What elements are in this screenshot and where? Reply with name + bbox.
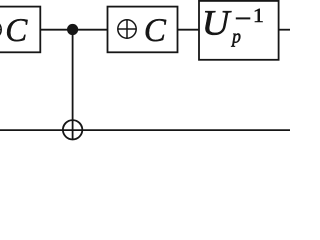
oplus symbol of gate G2 [118,20,136,38]
wire: top qubit, from left gate to middle gate (passes under control dot) [40,29,108,31]
control dot on top qubit [67,24,78,35]
wire: top qubit, middle gate to U gate [177,29,200,31]
superscript digit 1 of gate U_p^-1 [255,9,263,22]
wire: top qubit, U gate to right edge [278,29,290,31]
CNOT target circle on bottom qubit [63,120,82,139]
subscript p of gate U_p^-1 [231,33,240,46]
label C of gate G2 [146,19,167,41]
gate box G2 (XOR-C gate) [108,7,178,53]
gate box G1 (XOR-C gate, clipped by left image edge) [0,7,40,53]
label C of gate G1 [7,19,28,41]
gate box U_p^-1 [199,1,279,60]
oplus symbol of gate G1 (only right sliver visible) [0,20,1,38]
label U of gate U_p^-1 [205,11,231,35]
wire: vertical control-to-target link [72,30,74,140]
wire: bottom qubit, full width [0,129,290,131]
superscript minus sign of gate U_p^-1 [236,17,251,19]
